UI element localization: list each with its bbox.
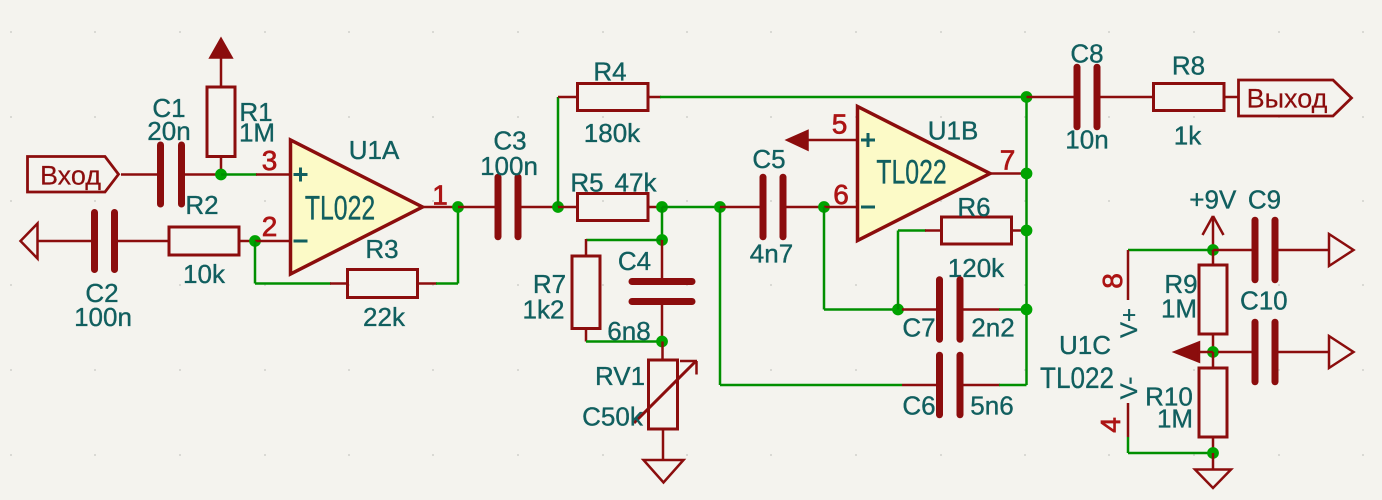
- svg-text:1k: 1k: [1174, 121, 1202, 151]
- svg-text:100n: 100n: [480, 151, 538, 181]
- output rail wire: [1025, 97, 1028, 385]
- svg-text:R2: R2: [185, 190, 218, 220]
- global label Вход: [28, 157, 119, 193]
- capacitor C6: [902, 384, 936, 387]
- junction +9V node: [1207, 244, 1219, 256]
- junction rail C7: [1021, 304, 1033, 316]
- resistor R3: [348, 270, 418, 298]
- svg-text:6: 6: [833, 179, 849, 210]
- svg-text:1k2: 1k2: [523, 295, 565, 325]
- svg-text:1: 1: [432, 180, 448, 211]
- wire +9V to pin 8: [1128, 249, 1213, 252]
- svg-text:TL022: TL022: [876, 154, 946, 192]
- node G junction pin6/C5/C7 branch: [818, 201, 830, 213]
- R5 left lead: [558, 206, 578, 209]
- svg-text:U1B: U1B: [928, 116, 979, 146]
- svg-text:2n2: 2n2: [971, 313, 1014, 343]
- junction C4 top: [656, 234, 668, 246]
- svg-text:TL022: TL022: [1040, 361, 1114, 394]
- capacitor C1: [157, 145, 164, 204]
- wire input to C1: [121, 173, 157, 176]
- svg-text:U1A: U1A: [349, 135, 400, 165]
- svg-text:V+: V+: [1116, 308, 1143, 338]
- U1B pin 5 lead: [806, 139, 858, 142]
- wire node A to pin 3: [221, 173, 257, 176]
- power flag mid-rail arrow: [1175, 343, 1199, 362]
- R5 right lead: [648, 206, 662, 209]
- wire C4 top to R7 top: [586, 239, 662, 242]
- potentiometer RV1: [649, 360, 678, 429]
- svg-text:3: 3: [262, 145, 278, 176]
- RV1 top lead: [661, 342, 664, 361]
- ground right: [1212, 453, 1215, 470]
- resistor R1: [207, 87, 235, 157]
- capacitor C2: [91, 213, 98, 270]
- ground RV1: [644, 460, 684, 483]
- wire C6 right to rail: [999, 384, 1027, 387]
- svg-text:4n7: 4n7: [750, 239, 793, 269]
- U1B minus mark: [861, 206, 875, 209]
- wire across to C6: [720, 384, 902, 387]
- R10 bottom lead: [1212, 437, 1215, 453]
- svg-text:20n: 20n: [147, 116, 190, 146]
- svg-text:C7: C7: [902, 313, 935, 343]
- power flag +V top: [211, 39, 232, 58]
- node F junction to C5 and C6 branch: [714, 201, 726, 213]
- node D junction C3/R4/R5: [552, 201, 564, 213]
- R7 top lead: [585, 239, 588, 256]
- wire node E down to C4 top: [661, 207, 664, 240]
- wire node E to node F: [662, 206, 724, 209]
- svg-text:C9: C9: [1248, 185, 1281, 215]
- node A junction C1/R1/pin3: [215, 169, 227, 181]
- svg-text:+9V: +9V: [1189, 185, 1237, 215]
- svg-text:R6: R6: [957, 192, 990, 222]
- svg-text:1M: 1M: [1161, 294, 1197, 324]
- R6 right lead: [1012, 229, 1027, 232]
- U1C pin 8 lead: [1127, 250, 1130, 300]
- R2 right lead: [239, 240, 255, 243]
- junction rail pin7: [1021, 168, 1033, 180]
- U1A minus mark: [294, 240, 308, 243]
- R1 bottom lead: [220, 157, 223, 175]
- R4 left lead: [558, 96, 578, 99]
- wire R6 left branch: [897, 231, 900, 310]
- junction rail R6: [1021, 225, 1033, 237]
- wire R7 bottom to C4 bottom: [586, 340, 662, 343]
- svg-text:10n: 10n: [1065, 125, 1108, 155]
- power flag pin 5 arrow: [788, 131, 808, 149]
- wire node D up to R4: [557, 97, 560, 207]
- svg-text:8: 8: [1097, 273, 1128, 289]
- svg-text:1M: 1M: [239, 118, 275, 148]
- U1B pin 7 lead: [990, 172, 1027, 175]
- svg-text:Вход: Вход: [40, 161, 101, 191]
- svg-text:TL022: TL022: [305, 190, 375, 228]
- power arrow +9V: [1212, 216, 1215, 250]
- svg-text:47k: 47k: [615, 168, 658, 198]
- bottom junction: [1207, 447, 1219, 459]
- resistor R4: [578, 84, 649, 111]
- svg-text:U1C: U1C: [1059, 330, 1111, 360]
- wire node F down: [719, 207, 722, 385]
- mid-rail junction: [1207, 346, 1219, 358]
- R9 bottom lead: [1212, 334, 1215, 352]
- svg-text:6n8: 6n8: [607, 316, 650, 346]
- resistor R8: [1154, 84, 1225, 111]
- svg-text:4: 4: [1095, 417, 1126, 433]
- svg-text:5n6: 5n6: [970, 391, 1013, 421]
- svg-text:C6: C6: [902, 391, 935, 421]
- resistor R7: [572, 256, 600, 329]
- node E junction R5/C4/R7: [656, 201, 668, 213]
- svg-text:120k: 120k: [948, 253, 1005, 283]
- R6 left lead: [925, 229, 942, 232]
- svg-text:RV1: RV1: [595, 361, 645, 391]
- svg-text:22k: 22k: [363, 302, 406, 332]
- svg-text:7: 7: [1000, 145, 1016, 176]
- svg-text:C8: C8: [1070, 39, 1103, 69]
- svg-text:C10: C10: [1240, 286, 1288, 316]
- U1A pin 3 lead: [256, 173, 291, 176]
- svg-text:C5: C5: [752, 144, 785, 174]
- U1A pin 2 lead: [255, 240, 291, 243]
- op-amp U1B: [858, 107, 991, 241]
- feedback wire to output: [436, 282, 458, 285]
- R3 left lead: [330, 282, 348, 285]
- junction rail top: [1021, 91, 1033, 103]
- wire pin 4 to ground rail: [1127, 437, 1130, 453]
- resistor R9: [1212, 250, 1215, 265]
- C1 leads: [185, 173, 221, 176]
- svg-text:C50k: C50k: [582, 402, 644, 432]
- node B junction R2/pin2/feedback: [249, 235, 261, 247]
- capacitor C10: [1218, 351, 1252, 354]
- wire node G down: [823, 207, 826, 310]
- global label Выход: [1239, 80, 1352, 116]
- capacitor C9: [1213, 249, 1252, 252]
- R4 right lead: [648, 96, 661, 99]
- R8 right lead: [1224, 96, 1239, 99]
- capacitor C3: [458, 206, 495, 209]
- U1B pin 6 lead: [824, 206, 858, 209]
- svg-text:R5: R5: [570, 168, 603, 198]
- svg-text:R4: R4: [593, 57, 626, 87]
- resistor R6: [942, 217, 1012, 244]
- wire C7 right to rail: [999, 308, 1027, 311]
- wire R4 to output rail: [660, 96, 1027, 99]
- svg-text:2: 2: [262, 211, 278, 242]
- op-amp U1A: [291, 140, 423, 274]
- output arrow terminal bottom right: [1329, 336, 1354, 368]
- resistor R10: [1212, 352, 1215, 368]
- capacitor C4: [661, 240, 664, 278]
- resistor R5: [578, 194, 649, 221]
- capacitor C7: [902, 308, 936, 311]
- node C junction U1A output: [452, 201, 464, 213]
- svg-text:Выход: Выход: [1247, 84, 1328, 114]
- svg-text:V-: V-: [1116, 377, 1143, 400]
- junction C4 bottom: [656, 336, 668, 348]
- U1B plus mark: [861, 139, 875, 142]
- resistor R2: [169, 227, 239, 255]
- R7 bottom lead: [585, 329, 588, 342]
- svg-text:1M: 1M: [1157, 404, 1193, 434]
- svg-text:100n: 100n: [74, 302, 132, 332]
- C2 right lead: [118, 240, 169, 243]
- U1A plus mark: [294, 173, 308, 176]
- U1A pin 1 lead: [423, 206, 459, 209]
- wire terminal to C2: [38, 240, 92, 243]
- svg-text:R8: R8: [1172, 51, 1205, 81]
- feedback wire node B down: [254, 241, 257, 284]
- svg-text:10k: 10k: [183, 259, 226, 289]
- capacitor C8: [1027, 96, 1074, 99]
- capacitor C5: [720, 206, 760, 209]
- svg-text:R3: R3: [365, 234, 398, 264]
- RV1 bottom lead: [662, 429, 665, 460]
- svg-text:5: 5: [832, 109, 848, 140]
- U1C pin 4 lead: [1127, 403, 1130, 437]
- junction C7 left: [892, 304, 904, 316]
- svg-text:C4: C4: [618, 246, 651, 276]
- output arrow terminal top right: [1329, 234, 1354, 266]
- svg-text:180k: 180k: [584, 118, 641, 148]
- R3 right lead: [418, 282, 438, 285]
- input arrow terminal left: [21, 224, 38, 259]
